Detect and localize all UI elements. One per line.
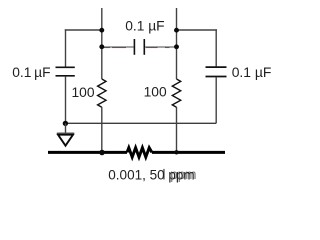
wire: ground bus thick line right segment xyxy=(152,151,225,154)
svg-text:100: 100 xyxy=(72,85,95,100)
capacitor C2 0.1 uF (middle, horizontal) xyxy=(134,39,144,55)
svg-text:100: 100 xyxy=(144,85,167,100)
wire: middle capacitor right lead (gray with red) xyxy=(145,46,177,49)
label R3 ghost artifact bar xyxy=(163,169,164,180)
junction: node C (right stub to middle cap) xyxy=(174,28,179,33)
junction: left resistor on bus xyxy=(99,150,105,156)
wire: ground stub xyxy=(65,123,67,133)
wire: ground bus thick line left segment xyxy=(48,151,127,154)
wire: right resistor bottom lead to bus xyxy=(176,107,178,152)
wire: right resistor branch vertical stub from top xyxy=(176,8,178,79)
wire: left resistor bottom lead to bus xyxy=(101,107,103,152)
junction: right resistor on bus xyxy=(174,150,178,154)
wire: right capacitor top lead xyxy=(215,29,217,66)
junction: node B (left middle cap tap) xyxy=(99,44,104,49)
resistor R3 0.001 ohm 50ppm (bold, in bus) xyxy=(127,148,152,157)
resistor R1 100 (left) xyxy=(98,79,106,107)
wire: left capacitor bottom lead xyxy=(65,77,67,124)
wire: middle capacitor left lead (gray with red) xyxy=(102,46,134,49)
wire: lower horizontal tie (left cap to right cap) xyxy=(66,122,217,124)
resistor R2 100 (right) xyxy=(172,79,180,107)
wire: top left horizontal xyxy=(65,29,102,31)
svg-text:0.1 µF: 0.1 µF xyxy=(12,65,50,80)
wire: top right horizontal xyxy=(177,29,217,31)
svg-text:ppm: ppm xyxy=(170,167,196,182)
junction: node D (right middle cap tap) xyxy=(174,44,179,49)
junction: node A (left stub to middle cap) xyxy=(99,28,104,33)
ground xyxy=(57,133,74,145)
wire: left capacitor top lead xyxy=(65,29,67,66)
svg-text:0.1 µF: 0.1 µF xyxy=(232,64,272,80)
capacitor C1 0.1 uF (left, vertical) xyxy=(56,67,75,76)
junction: node at left cap / ground xyxy=(63,121,68,126)
svg-text:0.1 µF: 0.1 µF xyxy=(125,19,164,34)
wire: right capacitor bottom lead xyxy=(215,77,217,123)
wire: left resistor branch vertical stub from top xyxy=(101,8,103,79)
capacitor C3 0.1 uF (right, vertical) xyxy=(206,67,227,76)
